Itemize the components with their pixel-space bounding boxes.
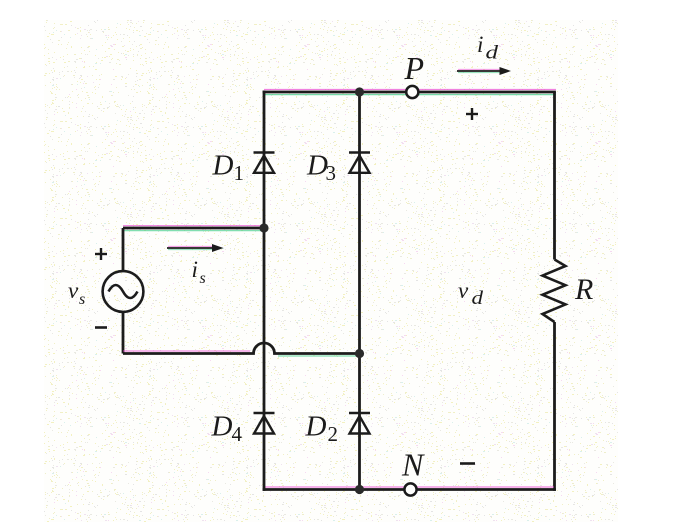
ac source vs bbox=[103, 271, 144, 312]
wire: left branch (D1/D4 leg) vertical bbox=[263, 91, 266, 491]
wire: source bottom lead with hop over left branch bbox=[123, 343, 360, 354]
svg-text:D: D bbox=[305, 411, 327, 443]
svg-text:D: D bbox=[211, 411, 233, 443]
svg-text:d: d bbox=[486, 43, 499, 64]
svg-text:v: v bbox=[68, 278, 79, 303]
scan fringe source top lead bbox=[123, 225, 262, 227]
svg-text:d: d bbox=[472, 288, 484, 309]
wire: top bus from left branch to right branch (node P line) bbox=[263, 91, 556, 94]
svg-text:P: P bbox=[404, 50, 425, 86]
resistor R bbox=[543, 260, 566, 323]
wire: middle branch (D3/D2 leg) vertical bbox=[358, 92, 361, 490]
wire: right branch lower segment from resistor to bottom bus bbox=[553, 322, 556, 491]
wire: source upper vertical bbox=[122, 228, 125, 271]
svg-text:N: N bbox=[401, 447, 425, 483]
wire: right branch upper segment to resistor bbox=[553, 92, 556, 260]
node terminal P (open circle) bbox=[406, 86, 418, 98]
diode D1 bbox=[254, 153, 275, 173]
diode D3 bbox=[349, 153, 370, 173]
diode D2 bbox=[349, 413, 370, 434]
label is bbox=[192, 257, 206, 287]
diode D4 bbox=[254, 413, 275, 434]
svg-text:i: i bbox=[477, 32, 483, 57]
minus terminal of source bbox=[95, 326, 107, 329]
scan fringe source bottom lead bbox=[123, 350, 250, 352]
wire: bottom bus from left branch to right branch (node N line) bbox=[263, 488, 556, 491]
label vs bbox=[68, 278, 85, 308]
junction node: bottom bus / middle branch bbox=[355, 485, 364, 494]
svg-text:3: 3 bbox=[326, 161, 337, 185]
svg-text:4: 4 bbox=[232, 422, 243, 446]
junction node: source top lead / left branch bbox=[259, 223, 268, 232]
svg-text:v: v bbox=[458, 278, 469, 303]
current arrow id bbox=[457, 67, 511, 75]
minus sign of vd polarity (bottom right) bbox=[460, 462, 475, 465]
scan fringe above top wire bbox=[264, 89, 556, 91]
svg-text:s: s bbox=[200, 270, 206, 287]
label id bbox=[477, 32, 499, 64]
svg-text:2: 2 bbox=[328, 422, 339, 446]
svg-text:i: i bbox=[192, 257, 198, 282]
wire: source lower vertical bbox=[122, 312, 125, 354]
junction node: top bus / middle branch bbox=[355, 87, 364, 96]
wire: source top lead (to left branch) bbox=[123, 227, 264, 230]
node terminal N (open circle) bbox=[404, 483, 416, 495]
current arrow is bbox=[167, 244, 224, 252]
svg-text:s: s bbox=[79, 291, 85, 308]
svg-text:D: D bbox=[212, 150, 234, 182]
svg-text:R: R bbox=[574, 273, 593, 306]
scan fringe above bottom wire bbox=[264, 486, 554, 488]
scan fringe below top wire bbox=[264, 94, 556, 96]
svg-text:1: 1 bbox=[234, 161, 245, 185]
plus sign of vd polarity (top right) bbox=[466, 108, 478, 120]
plus terminal of source bbox=[95, 248, 107, 260]
junction node: source bottom lead / middle branch bbox=[355, 349, 364, 358]
label vd bbox=[458, 278, 484, 309]
